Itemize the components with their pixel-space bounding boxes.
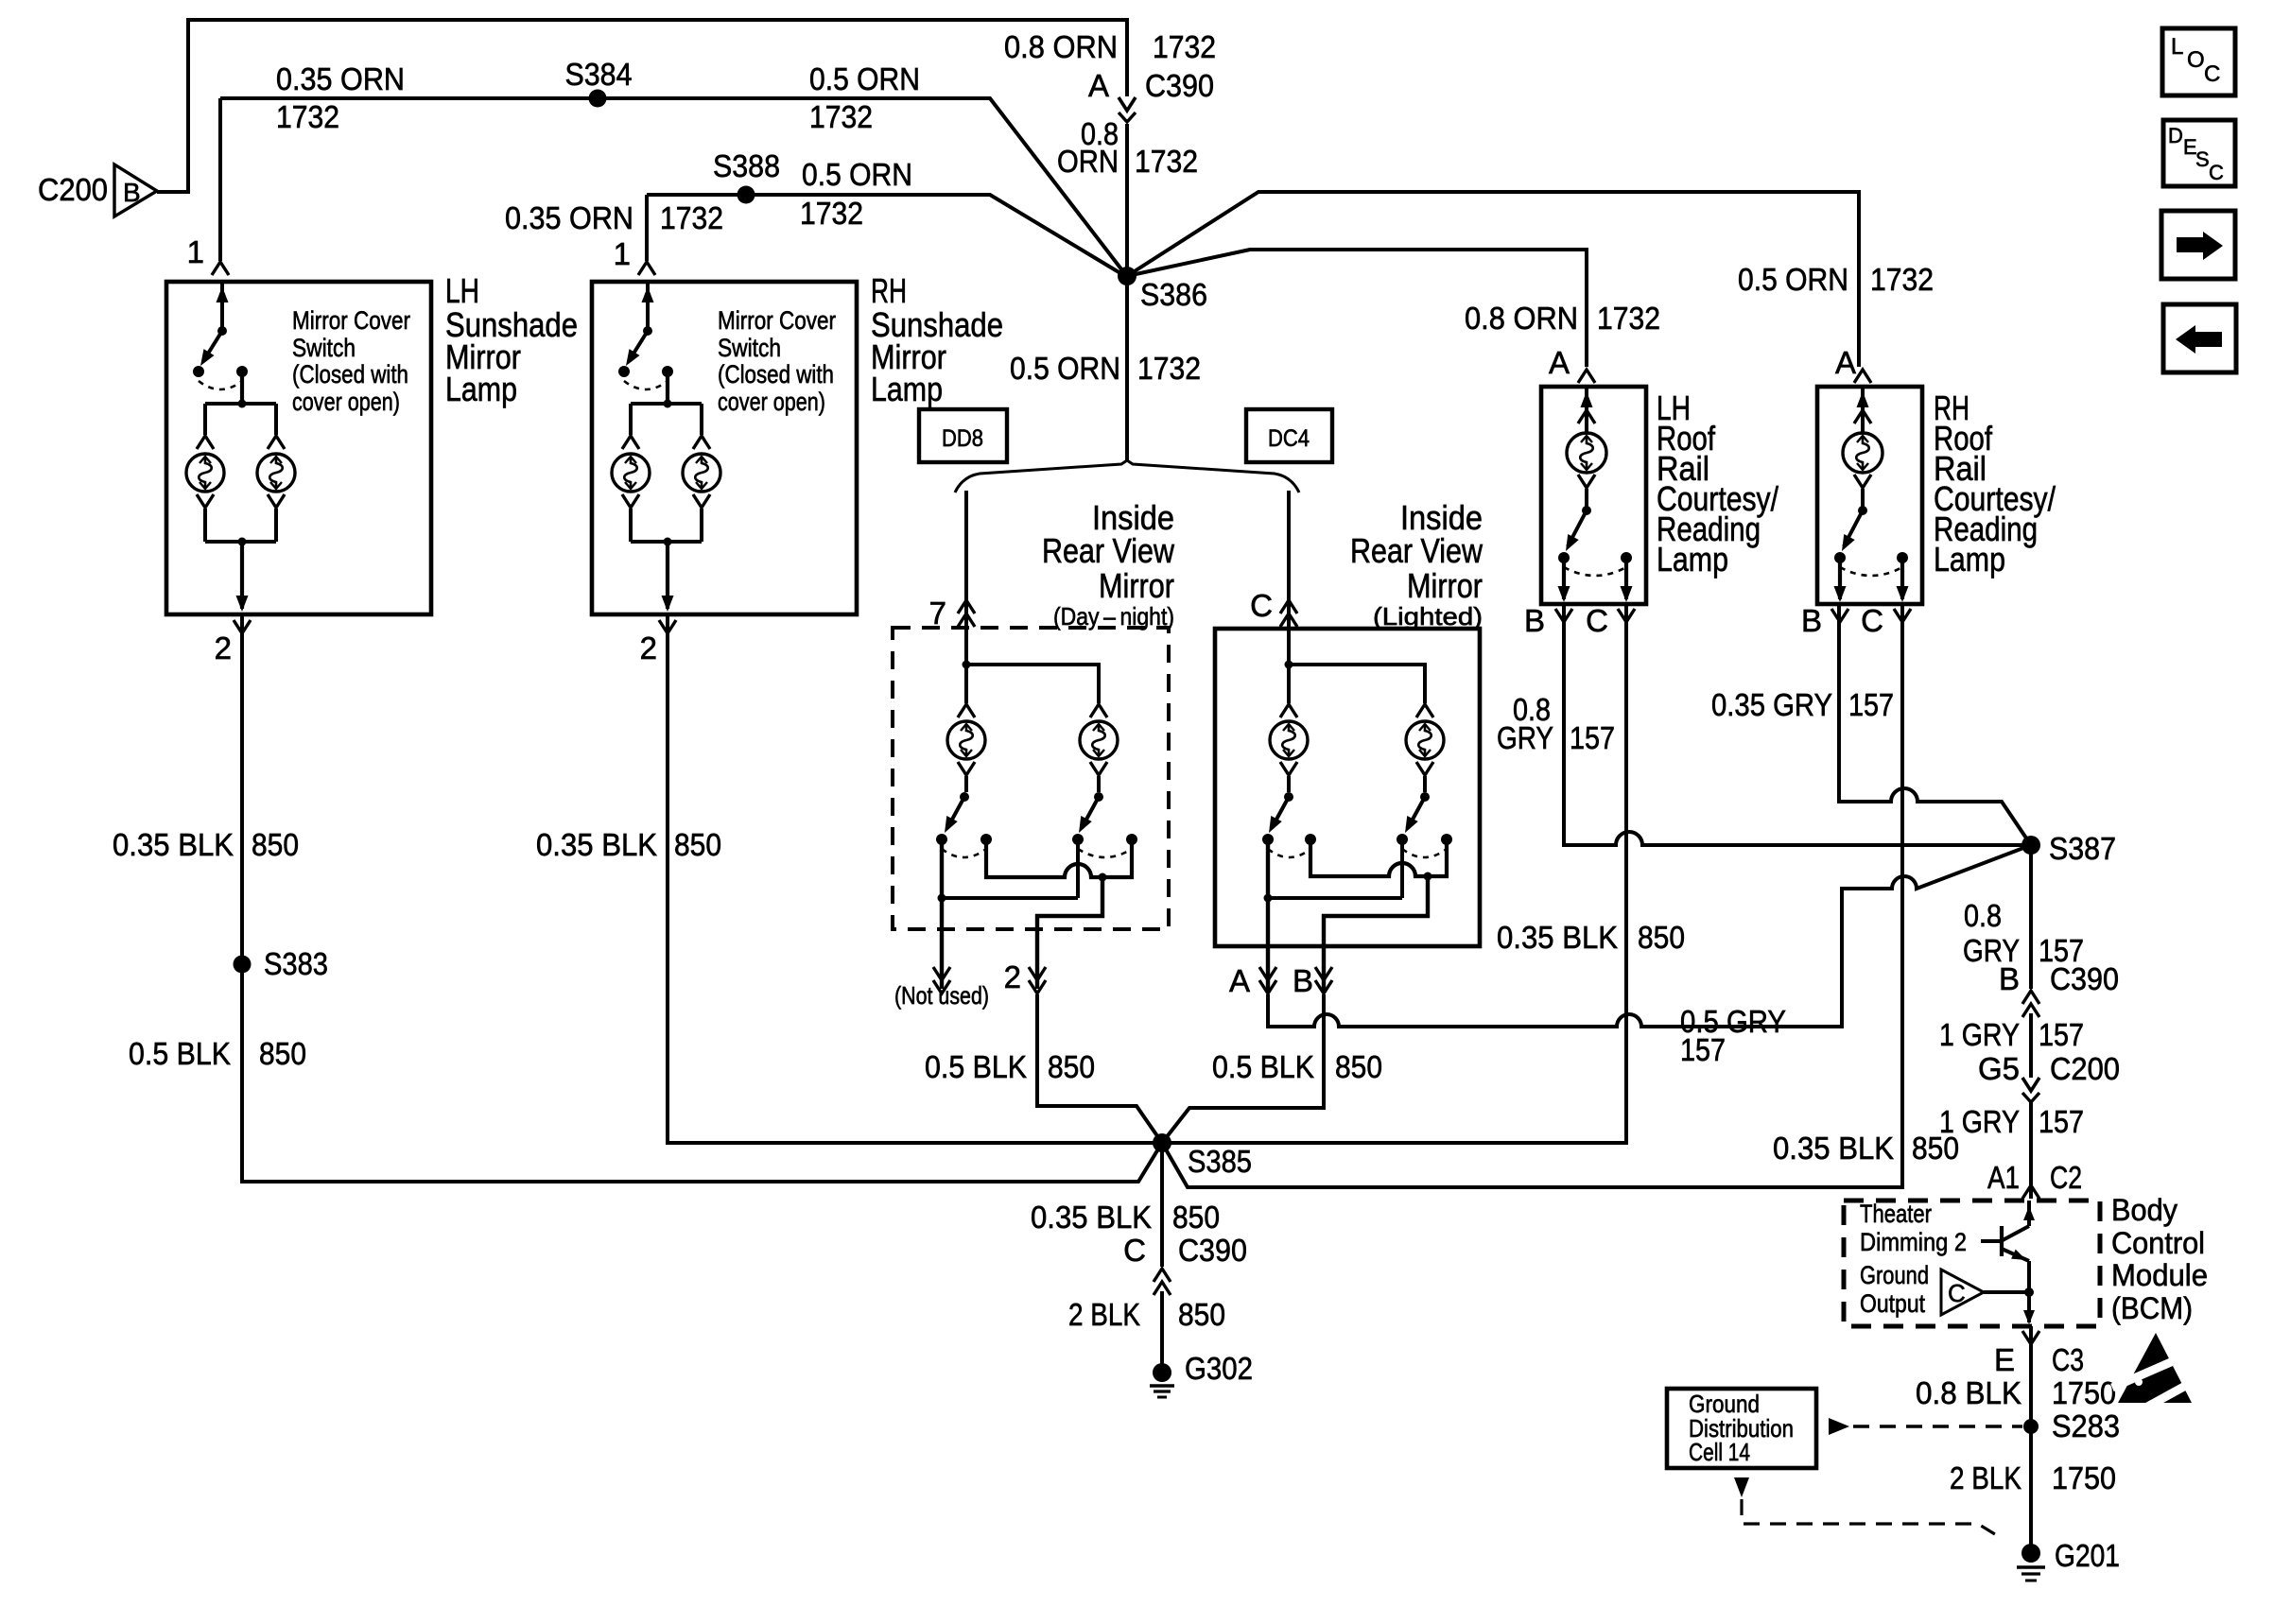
svg-text:1 GRY: 1 GRY [1939,1017,2020,1052]
svg-text:GRY: GRY [1497,720,1553,755]
LH roof rail pin C exit [1624,558,1628,599]
pin A1 C2 connector [2022,1185,2039,1199]
svg-text:0.8 BLK: 0.8 BLK [1916,1375,2021,1410]
svg-text:B: B [1801,603,1822,638]
RH roof rail lamp [1843,433,1883,473]
svg-text:LH: LH [445,271,479,310]
day-night lamp 2 [1080,721,1118,759]
LH sunshade mirror lamp box [166,282,431,614]
connector C390 pin A inline [1119,97,1136,111]
svg-text:Lamp: Lamp [1657,540,1728,579]
svg-text:C: C [1948,1279,1966,1307]
lighted switch 2 blade [1408,797,1425,828]
LH sunshade switch common arrow [220,284,224,328]
day-night lamp 1 lower terminal [958,762,975,775]
lighted lamp 2 [1406,721,1444,759]
ground G302 [1153,1363,1171,1382]
RH roof rail switch pivot [1858,506,1867,515]
svg-text:0.8 ORN: 0.8 ORN [1004,29,1118,64]
svg-text:Lamp: Lamp [1934,540,2005,579]
svg-text:ORN: ORN [1057,144,1119,179]
pin 2 day-night connector [1029,967,1046,980]
svg-text:Mirror Cover: Mirror Cover [718,306,836,335]
svg-text:1732: 1732 [660,200,723,235]
svg-text:RH: RH [871,271,907,310]
day-night not-used wire [940,839,944,989]
LH sunshade lamp 1 [186,454,224,492]
wire RH roof pin B to S387 [1839,604,2031,845]
LH sunshade switch fixed contact [236,366,248,377]
transistor Q1 base bar [2000,1226,2004,1256]
lighted lamp 2 lower terminal [1416,762,1433,775]
inside rear view mirror lighted box [1215,629,1480,946]
RH roof rail pin C exit [1900,558,1904,599]
wire lighted pinB to S385 [1162,994,1324,1143]
svg-text:850: 850 [1172,1200,1220,1235]
connector C390 pin B [2022,991,2039,1004]
svg-text:Lamp: Lamp [445,370,517,408]
wire RH roof pinC to S385 [1162,606,1902,1187]
RH sunshade mirror lamp box [592,282,857,614]
svg-text:0.8: 0.8 [1964,898,2002,933]
splice S283 [2023,1419,2039,1434]
wire S386 down to mirror split [1125,276,1129,460]
wire RH sunshade pin2 to S385 [668,616,1155,1143]
splice S386 [1118,267,1136,285]
svg-text:2: 2 [640,631,657,665]
RH sunshade lamp 2 lower terminal [693,494,710,508]
svg-text:0.8 ORN: 0.8 ORN [1465,301,1578,336]
svg-text:Switch: Switch [292,334,356,362]
RH roof rail switch blade [1844,510,1863,546]
dashed reference wire to G201 [1734,1477,1749,1497]
day-night switch 1 moving contact [936,834,947,845]
svg-text:0.35 ORN: 0.35 ORN [505,200,633,235]
pin 2 LH sunshade connector [234,620,251,633]
RH sunshade switch fixed contact [662,366,673,377]
lighted switch 1 moving contact [1262,834,1274,845]
LH roof rail pin B exit [1562,558,1566,599]
svg-text:C390: C390 [1178,1233,1247,1268]
svg-text:0.35 GRY: 0.35 GRY [1711,687,1832,722]
RH roof rail lamp lower terminal [1854,475,1871,488]
svg-text:Output: Output [1860,1289,1925,1318]
RH sunshade lamp bus bottom [631,540,702,544]
icon arrow left box [2163,304,2236,372]
lighted lamp 2 terminal [1416,704,1433,717]
svg-text:1 GRY: 1 GRY [1939,1104,2020,1139]
svg-text:Mirror Cover: Mirror Cover [292,306,410,335]
day-night switch 2 dashed arc [1078,849,1132,857]
pin 7 connector day-night [958,600,975,613]
day-night lamp 2 terminal [1090,704,1107,717]
svg-text:7: 7 [929,596,946,631]
LH roof rail switch pivot [1582,506,1591,515]
svg-text:0.5 BLK: 0.5 BLK [1212,1049,1314,1084]
svg-text:0.5 ORN: 0.5 ORN [1738,262,1848,297]
day-night switch 2 pivot [1094,792,1103,802]
wire C390-B to C200-G5 [2029,1013,2033,1078]
svg-text:C: C [1586,603,1608,638]
LH sunshade lamp 2 lower terminal [268,494,285,508]
wire S387 down to C390 pin B [2029,845,2033,989]
svg-text:1732: 1732 [800,196,863,231]
svg-text:Dimming 2: Dimming 2 [1860,1228,1967,1256]
svg-text:Module: Module [2111,1258,2208,1292]
svg-text:B: B [1293,963,1313,998]
splice S383 [234,956,252,974]
svg-text:C: C [1861,603,1883,638]
wire 0.5 ORN to RH sunshade pin 1 [647,195,1125,276]
svg-text:1732: 1732 [1135,144,1198,179]
svg-text:157: 157 [1848,687,1894,722]
RH sunshade lamp 2 [683,454,720,492]
LH sunshade lamp bus bottom [205,540,276,544]
svg-text:157: 157 [2039,1017,2084,1052]
svg-text:S384: S384 [565,57,633,92]
svg-text:cover open): cover open) [718,388,825,416]
svg-text:2: 2 [1004,959,1021,994]
day-night switch2 moving wire [1076,839,1080,898]
RH sunshade lamp 1 terminal [622,436,639,449]
lighted switch 1 fixed contact [1305,834,1316,845]
svg-text:157: 157 [1570,720,1615,755]
wire LH roof pinC to S385 [1169,606,1626,1143]
svg-text:(Not used): (Not used) [894,981,989,1010]
splice S385 [1153,1133,1171,1152]
svg-text:C: C [2204,61,2220,87]
RH roof rail switch moving contact [1834,552,1846,563]
connector box DD8 [919,409,1007,462]
svg-text:A: A [1835,345,1856,380]
svg-text:Theater: Theater [1860,1200,1932,1228]
lighted cross wire [1310,839,1447,876]
day-night entry junction [964,626,968,665]
svg-text:1750: 1750 [2052,1375,2116,1410]
LH sunshade lamp 1 lower terminal [197,494,214,508]
RH roof rail entry arrow [1861,389,1865,432]
svg-text:0.5 ORN: 0.5 ORN [809,61,920,96]
svg-text:S387: S387 [2049,831,2116,866]
svg-text:G302: G302 [1185,1351,1253,1386]
lighted switch 2 moving contact [1397,834,1408,845]
lighted link wire [1268,896,1402,900]
lighted lamp 1 [1270,721,1308,759]
svg-text:850: 850 [252,827,299,862]
svg-text:Ground: Ground [1860,1261,1929,1289]
svg-text:Control: Control [2111,1226,2205,1260]
LH sunshade lamp 2 [257,454,295,492]
pin A LH roof rail connector [1578,370,1595,383]
day-night branch wire [966,665,1099,703]
not used connector [933,967,950,980]
svg-text:cover open): cover open) [292,388,400,416]
svg-text:850: 850 [1335,1049,1382,1084]
ground distribution cell 14 box [1667,1389,1816,1468]
svg-text:DC4: DC4 [1268,425,1310,452]
LH sunshade lamp bus top [238,400,247,408]
svg-text:C390: C390 [1145,68,1214,103]
connector C200 pin G5 [2022,1078,2039,1091]
lighted pinA wire in box [1266,839,1270,993]
LH roof rail entry arrow [1585,389,1588,432]
svg-text:1732: 1732 [1137,351,1201,386]
wire S283 to G201 [2029,1426,2033,1546]
lighted lamp 1 terminal [1280,704,1297,717]
svg-text:G201: G201 [2055,1538,2120,1573]
svg-text:Mirror: Mirror [1099,566,1174,605]
svg-text:C: C [1250,588,1273,623]
svg-text:(BCM): (BCM) [2111,1291,2193,1325]
day-night pin2 stem [1037,877,1102,989]
lighted switch 2 pivot [1420,792,1430,802]
RH sunshade switch pivot [643,326,652,336]
ground G201 [2021,1544,2040,1563]
ESD sensitive symbol [2112,1333,2199,1410]
BCM collector wire [2027,1201,2031,1226]
day-night lamp 1 terminal [958,704,975,717]
svg-text:1732: 1732 [809,99,873,134]
svg-text:2 BLK: 2 BLK [1950,1460,2021,1495]
day-night switch 1 blade [947,797,964,828]
RH sunshade lamp 2 terminal [693,436,710,449]
svg-text:C2: C2 [2050,1160,2082,1195]
LH roof rail lamp [1567,433,1606,473]
connector box DC4 [1246,409,1332,462]
lighted switch 2 dashed arc [1402,849,1447,857]
svg-text:C: C [1123,1233,1146,1268]
splice S387 [2021,836,2040,855]
pin C connector lighted [1280,600,1297,613]
svg-text:Mirror: Mirror [1407,566,1483,605]
RH sunshade switch common arrow [646,284,650,328]
svg-text:S383: S383 [264,946,328,981]
body control module dashed box [1844,1201,2100,1326]
svg-text:A1: A1 [1987,1160,2020,1195]
svg-text:850: 850 [259,1036,306,1071]
day-night link wire [942,896,1078,900]
svg-text:A: A [1088,68,1109,103]
day-night switch 2 blade [1082,797,1099,828]
svg-text:C3: C3 [2052,1342,2084,1377]
icon arrow right box [2161,211,2235,279]
svg-text:Rear View: Rear View [1350,531,1484,570]
svg-text:C390: C390 [2050,961,2119,996]
svg-text:S: S [2195,147,2210,171]
wire C200-B to top feed [157,20,1127,192]
wire S386 to LH roof rail lamp pin A [1127,250,1587,367]
wire C390-C to G302 [1160,1291,1164,1365]
svg-text:850: 850 [1178,1297,1225,1332]
svg-text:(Day – night): (Day – night) [1053,602,1174,631]
svg-text:Lamp: Lamp [871,370,943,408]
LH sunshade lamp 2 terminal [268,436,285,449]
wire C200-G5 to BCM pin A1 [2029,1102,2033,1199]
svg-text:Rear View: Rear View [1042,531,1175,570]
pin 1 LH sunshade connector [212,262,229,275]
svg-text:1732: 1732 [1153,29,1216,64]
BCM output junction [2024,1287,2034,1297]
svg-text:1: 1 [187,234,204,269]
pin A lighted connector [1259,967,1276,980]
lighted switch 1 dashed arc [1268,849,1310,857]
icon DESC box [2163,120,2235,186]
lighted switch2 moving wire [1400,839,1404,898]
splice S384 [589,90,607,108]
svg-text:1750: 1750 [2052,1460,2116,1495]
svg-text:0.35 BLK: 0.35 BLK [1773,1131,1894,1166]
transistor Q1 emitter lead [2002,1249,2029,1261]
day-night switch 2 moving contact [1072,834,1084,845]
wire day-night pin2 to S385 [1037,994,1162,1143]
wire lighted pin A to S387 (0.5 GRY) [1268,845,2031,1027]
day-night switch 1 fixed contact [980,834,992,845]
svg-text:0.35 BLK: 0.35 BLK [536,827,657,862]
RH sunshade lamp 1 [612,454,650,492]
transistor Q1 collector lead [2003,1226,2029,1240]
RH sunshade switch blade [629,331,648,361]
pin C LH roof rail connector [1618,609,1635,622]
svg-text:1: 1 [614,236,631,271]
svg-text:S386: S386 [1140,277,1207,312]
split brace to both mirrors [955,460,1299,492]
svg-text:1732: 1732 [276,99,339,134]
LH sunshade switch pivot [217,326,227,336]
wire S386 to RH roof rail lamp pin A [1127,192,1859,367]
svg-text:C: C [2209,161,2224,184]
lighted switch 1 blade [1272,797,1289,828]
RH sunshade switch moving contact [618,366,630,377]
lighted entry junction [1287,626,1291,665]
wire brace to lighted pin C [1287,491,1291,626]
pin A RH roof rail connector [1854,370,1871,383]
lighted lamp 1 lower terminal [1280,762,1297,775]
pin B RH roof rail connector [1831,609,1848,622]
svg-text:157: 157 [1680,1032,1726,1067]
wire LH roof pin B to S387 [1564,604,2023,845]
svg-text:0.35 BLK: 0.35 BLK [1031,1200,1152,1235]
svg-text:(Closed with: (Closed with [292,360,408,389]
svg-text:2: 2 [215,631,232,665]
svg-text:A: A [1229,963,1250,998]
pin B LH roof rail connector [1555,609,1572,622]
RH roof rail pin B exit [1838,558,1842,599]
connector C200 pin B triangle [114,164,157,216]
svg-text:Switch: Switch [718,334,781,362]
svg-text:B: B [1524,603,1545,638]
svg-text:850: 850 [1638,920,1685,955]
svg-text:Body: Body [2111,1193,2178,1227]
svg-text:A: A [1549,345,1570,380]
LH sunshade switch moving contact [193,366,204,377]
LH roof rail switch fixed contact [1621,552,1632,563]
pin B lighted connector [1315,967,1332,980]
svg-text:S388: S388 [713,148,780,183]
svg-text:E: E [1994,1342,2015,1377]
svg-text:0.35 BLK: 0.35 BLK [1497,920,1618,955]
svg-text:O: O [2187,47,2205,73]
wire LH sunshade pin2 to S385 [242,616,1162,1182]
RH roof rail courtesy reading lamp box [1817,387,1922,604]
BCM output wire down [2027,1292,2031,1322]
svg-text:2 BLK: 2 BLK [1068,1297,1140,1332]
BCM emitter wire [2027,1261,2031,1291]
LH sunshade switch blade [203,331,222,361]
BCM buffer output wire [1984,1290,2029,1294]
day-night switch 1 dashed arc [942,849,986,857]
day-night switch 2 fixed contact [1126,834,1137,845]
svg-text:Cell 14: Cell 14 [1689,1438,1750,1466]
svg-text:G5: G5 [1978,1051,2020,1086]
wire 0.35 ORN to LH sunshade pin 1 [220,98,1125,274]
svg-text:S283: S283 [2052,1408,2120,1443]
RH roof rail dashed arc [1840,567,1902,576]
svg-text:0.5 ORN: 0.5 ORN [802,157,912,192]
svg-text:C200: C200 [2050,1051,2120,1086]
splice S388 [737,186,755,204]
RH sunshade lamp 1 lower terminal [622,494,639,508]
day-night cross wire [986,839,1132,877]
svg-text:B: B [123,178,141,207]
svg-text:0.35 ORN: 0.35 ORN [276,61,405,96]
pin E C3 connector [2022,1331,2039,1344]
LH roof rail switch moving contact [1558,552,1570,563]
wire C390-A to S386 [1125,124,1129,272]
svg-text:157: 157 [2039,1104,2084,1139]
LH roof rail switch blade [1568,510,1587,546]
svg-text:1732: 1732 [1870,262,1934,297]
svg-text:0.35 BLK: 0.35 BLK [113,827,234,862]
svg-text:0.5 ORN: 0.5 ORN [1010,351,1120,386]
svg-text:0.5 BLK: 0.5 BLK [925,1049,1027,1084]
svg-text:0.5 BLK: 0.5 BLK [129,1036,231,1071]
RH roof rail switch fixed contact [1897,552,1908,563]
RH sunshade switch dashed arc [624,381,668,389]
svg-text:(Lighted): (Lighted) [1373,602,1483,631]
lighted switch 2 fixed contact [1441,834,1452,845]
icon LOC box [2162,28,2235,95]
svg-text:DD8: DD8 [942,425,983,452]
lighted switch 1 pivot [1284,792,1293,802]
day-night switch 1 pivot [960,792,969,802]
day-night lamp 1 [947,721,985,759]
svg-text:B: B [1999,961,2020,996]
wire S385 down to C390 pin C [1160,1143,1164,1267]
RH sunshade lamp bus top [664,400,672,408]
BCM buffer C triangle [1941,1270,1984,1315]
svg-text:850: 850 [674,827,721,862]
LH roof rail lamp lower terminal [1578,475,1595,488]
svg-text:850: 850 [1048,1049,1095,1084]
inside rear view mirror day-night box [893,628,1169,929]
day-night lamp 2 lower terminal [1090,762,1107,775]
pin C RH roof rail connector [1894,609,1911,622]
lighted pinB stem [1324,876,1428,993]
wire brace to day-night pin 7 [964,491,968,626]
svg-text:(Closed with: (Closed with [718,360,834,389]
svg-text:C200: C200 [38,172,108,207]
svg-text:S385: S385 [1188,1144,1252,1179]
connector C390 pin C [1154,1269,1171,1282]
pin 2 RH sunshade connector [659,620,676,633]
LH roof rail courtesy reading lamp box [1541,387,1646,604]
svg-text:D: D [2168,124,2183,147]
svg-text:1732: 1732 [1597,301,1660,336]
lighted branch wire [1289,665,1425,703]
dashed reference wire to S283 [1829,1418,1849,1435]
LH sunshade switch dashed arc [199,381,242,389]
transistor Q1 base lead [1981,1239,2002,1243]
